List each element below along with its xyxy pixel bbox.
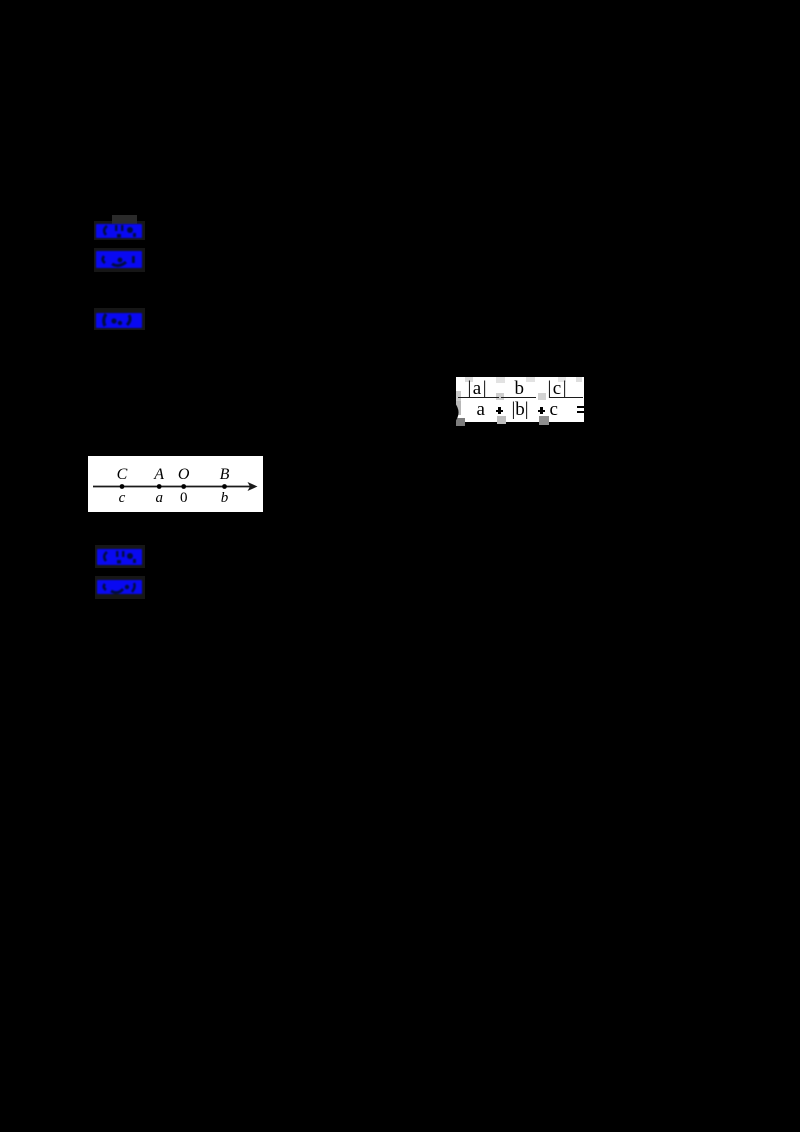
svg-text:A: A [153, 466, 164, 483]
svg-text:O: O [178, 466, 190, 483]
svg-text:a: a [155, 490, 163, 506]
svg-text:b: b [221, 490, 229, 506]
svg-text:c: c [119, 490, 126, 506]
svg-text:0: 0 [180, 490, 188, 506]
svg-text:C: C [117, 466, 128, 483]
svg-text:B: B [220, 466, 230, 483]
